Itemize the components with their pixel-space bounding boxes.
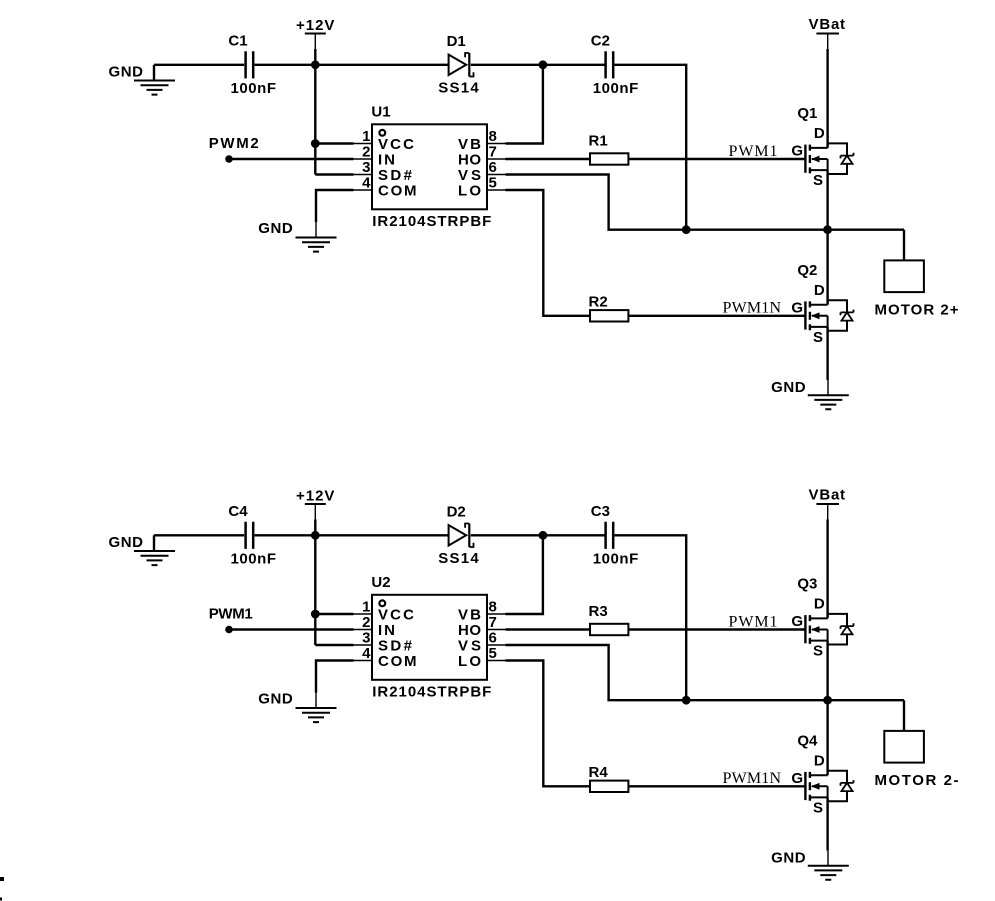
svg-text:GND: GND: [109, 64, 144, 81]
svg-text:D: D: [814, 125, 825, 142]
svg-text:S: S: [813, 643, 823, 660]
svg-text:PWM1N: PWM1N: [723, 770, 782, 787]
svg-text:PWM1: PWM1: [209, 606, 253, 623]
svg-text:D: D: [814, 282, 825, 299]
svg-text:VCC: VCC: [378, 136, 414, 153]
svg-text:U1: U1: [371, 103, 390, 120]
svg-text:COM: COM: [378, 182, 417, 199]
svg-text:S: S: [813, 800, 823, 817]
svg-text:PWM1N: PWM1N: [723, 299, 782, 316]
svg-text:100nF: 100nF: [593, 80, 639, 97]
svg-text:GND: GND: [771, 379, 806, 396]
svg-text:G: G: [791, 143, 803, 160]
svg-text:R2: R2: [589, 294, 608, 311]
svg-text:S: S: [813, 172, 823, 189]
svg-text:7: 7: [489, 614, 497, 631]
svg-text:2: 2: [362, 614, 370, 631]
svg-text:100nF: 100nF: [593, 551, 639, 568]
svg-text:LO: LO: [458, 653, 481, 670]
svg-text:C4: C4: [228, 503, 248, 520]
svg-text:D: D: [814, 596, 825, 613]
svg-text:6: 6: [489, 629, 497, 646]
svg-text:GND: GND: [771, 850, 806, 867]
svg-text:D2: D2: [447, 503, 466, 520]
svg-text:IR2104STRPBF: IR2104STRPBF: [372, 213, 491, 230]
svg-text:5: 5: [489, 645, 497, 662]
svg-text:+12V: +12V: [296, 488, 335, 505]
svg-text:C2: C2: [591, 33, 610, 50]
svg-text:LO: LO: [458, 182, 481, 199]
svg-text:SS14: SS14: [438, 550, 479, 567]
svg-text:IN: IN: [378, 622, 395, 639]
svg-text:VB: VB: [458, 136, 481, 153]
svg-text:3: 3: [362, 159, 370, 176]
svg-text:HO: HO: [458, 151, 481, 168]
svg-text:100nF: 100nF: [231, 551, 276, 568]
svg-text:Q3: Q3: [797, 576, 817, 593]
svg-text:C1: C1: [228, 33, 247, 50]
svg-text:+12V: +12V: [296, 17, 335, 34]
svg-text:Q4: Q4: [797, 732, 818, 749]
svg-text:S: S: [813, 329, 823, 346]
svg-text:G: G: [791, 300, 803, 317]
svg-text:HO: HO: [458, 622, 481, 639]
svg-text:SS14: SS14: [438, 79, 479, 96]
svg-text:Q1: Q1: [797, 105, 817, 122]
svg-text:GND: GND: [109, 534, 144, 551]
svg-text:100nF: 100nF: [231, 80, 276, 97]
svg-text:PWM2: PWM2: [209, 135, 259, 152]
svg-text:R3: R3: [589, 603, 608, 620]
svg-text:6: 6: [489, 159, 497, 176]
svg-text:4: 4: [362, 174, 371, 191]
svg-text:VCC: VCC: [378, 606, 414, 623]
svg-text:D: D: [814, 753, 825, 770]
svg-text:G: G: [791, 770, 803, 787]
svg-text:4: 4: [362, 645, 371, 662]
svg-text:PWM1: PWM1: [729, 614, 778, 631]
svg-text:U2: U2: [371, 574, 390, 591]
svg-text:C3: C3: [591, 503, 610, 520]
svg-text:R1: R1: [589, 133, 608, 150]
svg-text:VB: VB: [458, 606, 481, 623]
svg-text:IR2104STRPBF: IR2104STRPBF: [372, 684, 491, 701]
svg-text:SD#: SD#: [378, 167, 413, 184]
svg-text:1: 1: [362, 598, 370, 615]
svg-text:VBat: VBat: [809, 16, 846, 33]
svg-text:2: 2: [362, 143, 370, 160]
svg-text:SD#: SD#: [378, 637, 413, 654]
svg-text:7: 7: [489, 143, 497, 160]
svg-text:8: 8: [489, 598, 497, 615]
svg-text:IN: IN: [378, 151, 395, 168]
svg-text:MOTOR 2+: MOTOR 2+: [875, 301, 959, 318]
svg-text:COM: COM: [378, 653, 417, 670]
svg-text:Q2: Q2: [797, 262, 817, 279]
svg-text:R4: R4: [589, 764, 609, 781]
svg-text:G: G: [791, 613, 803, 630]
svg-text:PWM1: PWM1: [729, 143, 778, 160]
svg-text:3: 3: [362, 629, 370, 646]
svg-text:8: 8: [489, 128, 497, 145]
svg-text:5: 5: [489, 174, 497, 191]
svg-text:VBat: VBat: [809, 487, 846, 504]
svg-text:GND: GND: [258, 220, 293, 237]
svg-text:D1: D1: [447, 33, 466, 50]
svg-text:1: 1: [362, 128, 370, 145]
svg-text:GND: GND: [258, 691, 293, 708]
